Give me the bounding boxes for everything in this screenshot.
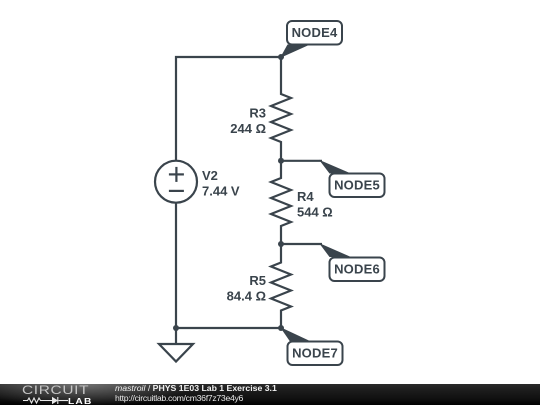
svg-text:R4: R4 [297, 189, 314, 204]
svg-text:NODE5: NODE5 [334, 178, 380, 193]
svg-text:R5: R5 [249, 273, 266, 288]
svg-text:NODE7: NODE7 [292, 346, 338, 361]
svg-text:V2: V2 [202, 168, 218, 183]
svg-text:544 Ω: 544 Ω [297, 205, 333, 220]
svg-text:84.4 Ω: 84.4 Ω [227, 289, 266, 304]
svg-text:R3: R3 [249, 106, 266, 121]
svg-text:7.44 V: 7.44 V [202, 184, 240, 199]
svg-text:NODE6: NODE6 [334, 262, 380, 277]
svg-text:NODE4: NODE4 [292, 25, 338, 40]
svg-text:244 Ω: 244 Ω [230, 121, 266, 136]
